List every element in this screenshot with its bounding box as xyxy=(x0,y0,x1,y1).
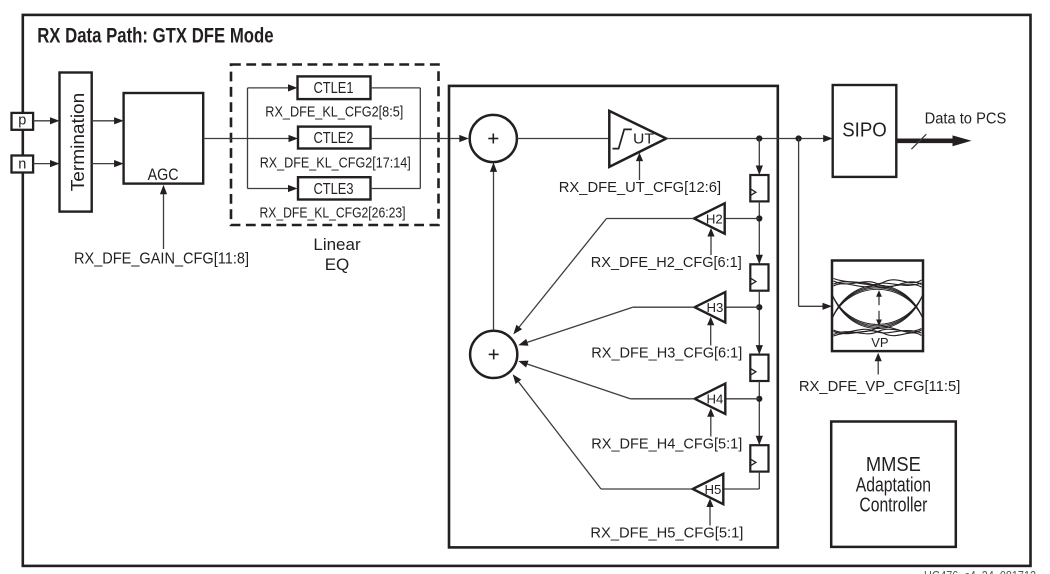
svg-text:H2: H2 xyxy=(706,211,723,226)
svg-text:RX_DFE_KL_CFG2[8:5]: RX_DFE_KL_CFG2[8:5] xyxy=(265,104,403,121)
wire H4 config arrow xyxy=(710,414,712,436)
CTLE3 block xyxy=(298,177,371,199)
svg-text:UT: UT xyxy=(633,132,654,148)
wire CTLE2 to summer xyxy=(371,138,461,140)
svg-text:CTLE1: CTLE1 xyxy=(314,80,354,97)
svg-text:RX_DFE_GAIN_CFG[11:8]: RX_DFE_GAIN_CFG[11:8] xyxy=(74,251,249,268)
linear EQ dashed box xyxy=(231,65,439,226)
wire n to Termination xyxy=(33,163,53,165)
svg-text:VP: VP xyxy=(871,335,888,350)
slicer U1 xyxy=(609,111,666,167)
wire FF4 to H5 xyxy=(758,472,760,489)
svg-text:RX_DFE_H3_CFG[6:1]: RX_DFE_H3_CFG[6:1] xyxy=(591,345,742,362)
junction dot A xyxy=(756,135,762,141)
wire S1 to slicer xyxy=(517,138,609,140)
svg-text:Adaptation: Adaptation xyxy=(856,474,931,496)
svg-text:RX_DFE_H2_CFG[6:1]: RX_DFE_H2_CFG[6:1] xyxy=(591,254,742,271)
DFE block boundary xyxy=(449,86,778,548)
eye VP down arrow xyxy=(878,311,880,320)
eye monitor box xyxy=(832,261,923,352)
junction dot H2 tap xyxy=(756,215,762,221)
flip-flop FF4 xyxy=(750,445,768,471)
wire VP config arrow xyxy=(877,359,879,375)
wire H3 config arrow xyxy=(710,323,712,346)
wire Termination to AGC upper xyxy=(92,120,117,122)
svg-text:RX_DFE_KL_CFG2[26:23]: RX_DFE_KL_CFG2[26:23] xyxy=(260,204,406,221)
CTLE1 block xyxy=(298,76,371,99)
wire H2 to S2 xyxy=(607,218,695,220)
svg-text:RX_DFE_UT_CFG[12:6]: RX_DFE_UT_CFG[12:6] xyxy=(559,179,721,196)
amplifier H2 xyxy=(694,203,725,233)
wire branch vertical xyxy=(247,88,249,189)
eye diagram traces xyxy=(834,283,922,287)
eye VP up arrow xyxy=(878,296,880,305)
svg-text:H3: H3 xyxy=(706,300,723,315)
summing node S2 xyxy=(470,331,517,378)
wire FF2 to FF3 xyxy=(758,291,760,308)
wire into FF1 xyxy=(758,139,760,169)
wire H5 to S2 xyxy=(601,488,693,490)
wire branch to CTLE1 xyxy=(248,87,289,89)
svg-text:RX_DFE_VP_CFG[11:5]: RX_DFE_VP_CFG[11:5] xyxy=(799,378,960,395)
flip-flop FF3 xyxy=(750,355,768,381)
wire slicer to SIPO xyxy=(666,138,824,140)
svg-text:H4: H4 xyxy=(706,392,723,407)
wire UT config arrow xyxy=(639,159,641,181)
wire collection vertical xyxy=(419,88,421,189)
svg-text:CTLE2: CTLE2 xyxy=(314,130,354,147)
wire into CTLE2 xyxy=(289,135,299,142)
wire H2 tap xyxy=(725,218,760,220)
svg-text:Controller: Controller xyxy=(859,495,927,517)
wire CTLE3 output xyxy=(371,188,421,190)
svg-text:MMSE: MMSE xyxy=(866,454,921,476)
svg-text:EQ: EQ xyxy=(325,255,350,274)
wire H3 tap xyxy=(725,306,759,308)
flip-flop FF1 xyxy=(750,175,768,201)
wire S2 to S1 xyxy=(493,170,495,331)
wire H5 config arrow xyxy=(709,504,711,525)
CTLE2 block xyxy=(298,127,371,149)
flip-flop FF2 xyxy=(750,264,768,290)
svg-text:SIPO: SIPO xyxy=(842,118,887,141)
wire H4 tap xyxy=(725,398,759,400)
svg-text:RX_DFE_KL_CFG2[17:14]: RX_DFE_KL_CFG2[17:14] xyxy=(260,154,411,171)
wire p to Termination xyxy=(33,120,53,122)
svg-text:UG476_c4_24_081712: UG476_c4_24_081712 xyxy=(924,569,1036,574)
SIPO block xyxy=(833,85,897,177)
svg-text:CTLE3: CTLE3 xyxy=(314,181,354,198)
summing node S1 xyxy=(470,115,517,162)
node n xyxy=(12,156,34,173)
svg-text:RX_DFE_H5_CFG[5:1]: RX_DFE_H5_CFG[5:1] xyxy=(590,525,743,542)
AGC block xyxy=(124,93,204,184)
wire FF3 to FF4 xyxy=(758,381,760,399)
wire AGC output xyxy=(203,138,292,140)
wire CTLE1 output xyxy=(371,87,421,89)
wire FF1 to FF2 xyxy=(758,201,760,218)
termination block xyxy=(60,73,92,212)
wire H2 config arrow xyxy=(710,234,712,255)
junction dot H3 tap xyxy=(756,304,762,310)
svg-text:RX Data Path: GTX DFE Mode: RX Data Path: GTX DFE Mode xyxy=(37,25,273,48)
svg-text:Linear: Linear xyxy=(313,235,361,254)
amplifier H3 xyxy=(695,292,726,322)
junction dot B xyxy=(796,135,802,141)
svg-text:RX_DFE_H4_CFG[5:1]: RX_DFE_H4_CFG[5:1] xyxy=(591,435,742,452)
svg-text:p: p xyxy=(18,112,26,128)
svg-text:Data to PCS: Data to PCS xyxy=(925,111,1007,128)
junction dot H4 tap xyxy=(756,396,762,402)
data to PCS arrow xyxy=(897,139,954,144)
wire H4 to S2 xyxy=(630,398,695,400)
wire RX_DFE_GAIN_CFG to AGC xyxy=(163,192,165,250)
svg-text:AGC: AGC xyxy=(148,166,179,184)
wire Termination to AGC lower xyxy=(92,163,117,165)
node p xyxy=(12,113,34,130)
amplifier H5 xyxy=(693,474,724,504)
amplifier H4 xyxy=(695,384,726,414)
wire branch to CTLE3 xyxy=(248,188,289,190)
MMSE adaptation controller block xyxy=(831,422,956,547)
svg-text:Termination: Termination xyxy=(68,93,88,192)
wire dot B to eye monitor xyxy=(798,139,800,307)
svg-text:H5: H5 xyxy=(704,482,721,497)
svg-text:n: n xyxy=(18,156,26,172)
wire H3 to S2 xyxy=(633,306,695,308)
